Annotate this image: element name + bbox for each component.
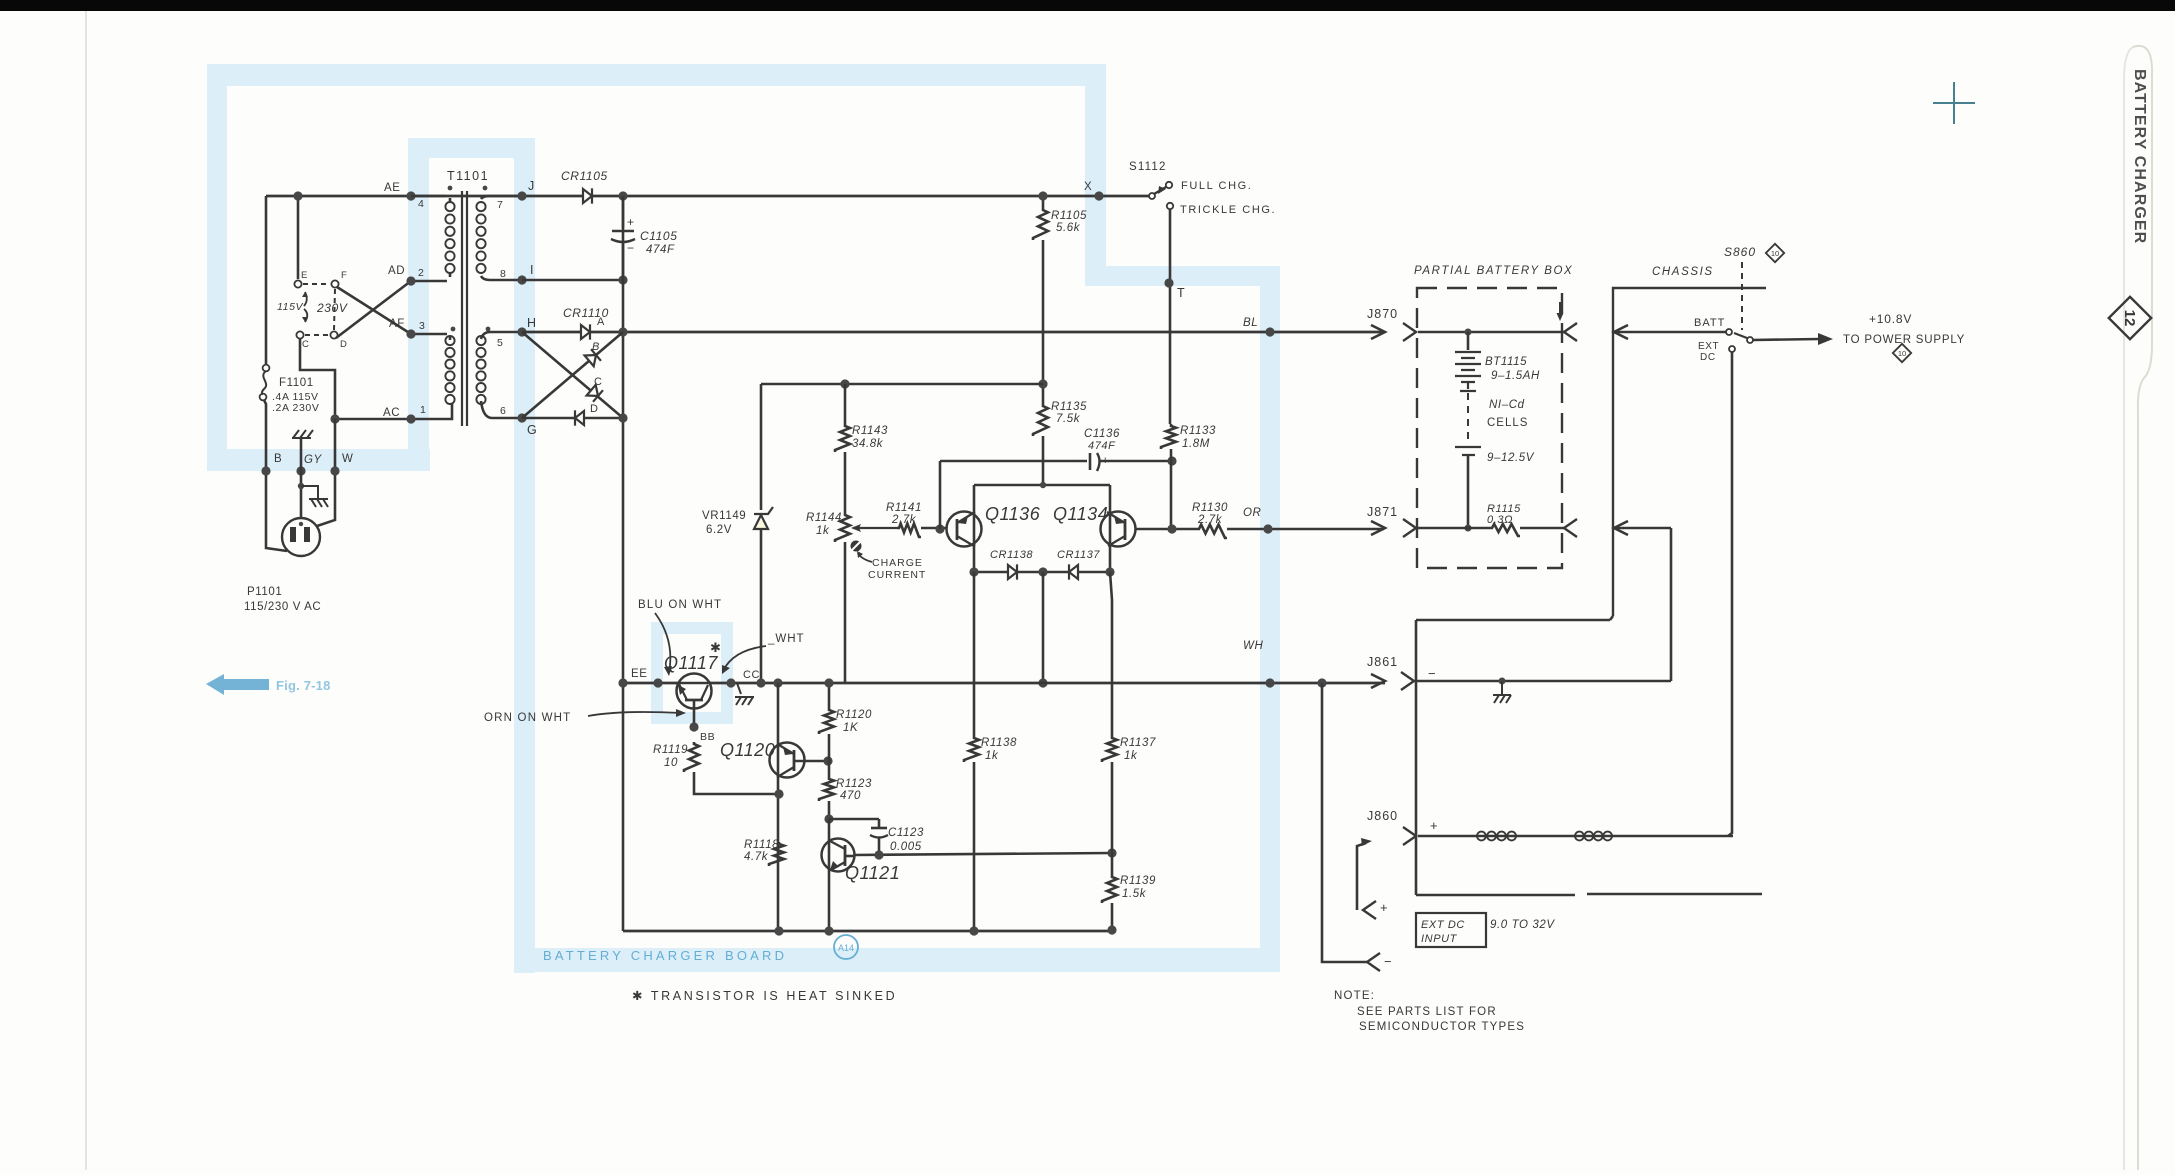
node VR-rail junction xyxy=(756,678,765,687)
battery BT1115 xyxy=(1467,332,1470,350)
transformer primary lower winding 3-1 xyxy=(445,336,454,404)
svg-text:G: G xyxy=(527,423,537,437)
svg-text:10: 10 xyxy=(1898,349,1906,358)
svg-text:T1101: T1101 xyxy=(447,169,489,183)
wire C1136 vertical from base xyxy=(939,461,942,529)
node Q1120 collector rail junction xyxy=(773,678,782,687)
plug P1101 xyxy=(282,518,320,556)
node R1105-R1135 junction xyxy=(1038,379,1047,388)
transistor Q1136 xyxy=(947,512,982,547)
blue highlight band transformer-top xyxy=(408,138,535,158)
node C1136-R1133 junction xyxy=(1167,456,1176,465)
svg-text:+: + xyxy=(1430,818,1438,833)
blue highlight band bottom-left xyxy=(207,449,430,471)
wire AC horizontal xyxy=(335,418,411,421)
wire trickle vertical T xyxy=(1169,209,1172,424)
capacitor C1136 xyxy=(1089,453,1092,470)
svg-text:SEMICONDUCTOR TYPES: SEMICONDUCTOR TYPES xyxy=(1359,1021,1525,1033)
svg-text:Q1120: Q1120 xyxy=(720,740,775,760)
node A junction xyxy=(618,327,627,336)
node ext-dc minus tap xyxy=(1317,678,1326,687)
capacitor C1123 xyxy=(829,819,879,827)
svg-text:J861: J861 xyxy=(1367,655,1398,669)
wire lower chassis run xyxy=(1416,894,1762,895)
transistor Q1134 xyxy=(1101,512,1136,547)
svg-text:R1139: R1139 xyxy=(1120,875,1156,887)
svg-text:B: B xyxy=(274,453,282,465)
blue highlight band left xyxy=(207,64,227,471)
transformer secondary phasing dot lower xyxy=(486,327,491,332)
svg-text:_WHT: _WHT xyxy=(767,633,805,645)
R1144 wiper arrow xyxy=(853,527,897,529)
blue highlight band transformer-left xyxy=(408,138,429,471)
wire W vertical to plug xyxy=(317,419,335,526)
node I xyxy=(517,275,526,284)
svg-text:INPUT: INPUT xyxy=(1421,933,1458,945)
blue highlight band board-left vertical xyxy=(514,138,535,973)
wire bias rail y=384 xyxy=(761,383,1043,386)
node H xyxy=(517,327,526,336)
svg-text:R1133: R1133 xyxy=(1180,425,1216,437)
svg-text:12: 12 xyxy=(2121,310,2138,327)
diode A CR1110 xyxy=(581,325,590,339)
svg-text:R1144: R1144 xyxy=(806,512,842,524)
node EE xyxy=(653,678,662,687)
wire Q1121 collector to R1137 junction xyxy=(854,853,1112,855)
svg-text:4.7k: 4.7k xyxy=(744,851,769,863)
wire J871 inside battery box xyxy=(1418,527,1490,530)
wire AE to winding xyxy=(411,196,450,202)
transformer primary phasing dot upper xyxy=(448,186,453,191)
wire Q1134 emitter-collector vertical xyxy=(1109,485,1112,572)
svg-text:S860: S860 xyxy=(1724,245,1756,259)
svg-text:474F: 474F xyxy=(1088,440,1116,452)
svg-text:1: 1 xyxy=(420,404,426,416)
svg-text:R1137: R1137 xyxy=(1120,737,1156,749)
wire G line xyxy=(522,417,623,420)
wire GY vertical xyxy=(300,438,303,519)
svg-text:✱: ✱ xyxy=(710,640,722,655)
svg-text:R1143: R1143 xyxy=(852,425,888,437)
svg-text:C: C xyxy=(594,376,603,388)
battery dashed middle xyxy=(1467,393,1469,443)
fuse F1101 xyxy=(263,365,270,372)
svg-text:9.0 TO 32V: 9.0 TO 32V xyxy=(1490,919,1555,931)
svg-text:TO POWER SUPPLY: TO POWER SUPPLY xyxy=(1843,334,1965,346)
svg-text:BATTERY CHARGER BOARD: BATTERY CHARGER BOARD xyxy=(543,948,787,963)
wire R1138 vertical xyxy=(973,572,976,736)
node B xyxy=(261,466,270,475)
switch contact C xyxy=(296,331,303,338)
transformer core xyxy=(462,191,467,426)
svg-text:SEE PARTS LIST FOR: SEE PARTS LIST FOR xyxy=(1357,1006,1497,1018)
chassis bracket xyxy=(1613,288,1766,616)
page fold line xyxy=(85,11,87,1170)
svg-text:DC: DC xyxy=(1700,352,1716,363)
svg-text:B: B xyxy=(592,341,600,353)
switch contact D xyxy=(330,331,337,338)
svg-text:J: J xyxy=(528,179,535,193)
svg-text:+10.8V: +10.8V xyxy=(1869,312,1912,326)
terminal 2 / AD wire xyxy=(411,273,450,281)
assembly circle A14 xyxy=(834,935,858,959)
resistor R1139 xyxy=(1111,853,1114,875)
svg-text:BT1115: BT1115 xyxy=(1485,356,1527,368)
label CHARGE CURRENT with arrow xyxy=(858,553,872,562)
svg-text:P1101: P1101 xyxy=(247,586,282,598)
node Q1120 base junction xyxy=(823,756,832,765)
terminal 4 xyxy=(406,191,415,200)
node battery bottom tap xyxy=(1465,525,1472,532)
terminal 5 wire to H xyxy=(481,332,522,339)
switch S860 dashed linkage xyxy=(1741,262,1743,330)
svg-text:10: 10 xyxy=(1771,249,1779,258)
chassis-side arrow to BATT (BL) xyxy=(1614,325,1628,339)
svg-text:9–1.5AH: 9–1.5AH xyxy=(1491,370,1540,382)
svg-text:1.8M: 1.8M xyxy=(1182,438,1210,450)
node OR xyxy=(1263,524,1272,533)
node R1123-C1123 junction xyxy=(824,814,833,823)
wire J861 to riser xyxy=(1416,680,1671,683)
switch S1112 xyxy=(1149,193,1155,199)
svg-text:6: 6 xyxy=(500,405,506,417)
svg-text:−: − xyxy=(627,241,635,255)
transformer primary upper winding 4-2 xyxy=(445,202,454,273)
blue highlight band board-right vertical xyxy=(1260,266,1280,972)
svg-text:J860: J860 xyxy=(1367,809,1398,823)
diode CR1105 on top rail xyxy=(583,189,592,203)
diamond 10 power supply ref xyxy=(1893,344,1911,362)
svg-text:1K: 1K xyxy=(843,722,859,734)
wire left B vertical upper xyxy=(265,196,268,364)
transformer secondary lower winding 5-6 xyxy=(476,336,485,404)
svg-text:R1105: R1105 xyxy=(1051,210,1087,222)
svg-text:VR1149: VR1149 xyxy=(702,510,746,522)
svg-text:R1141: R1141 xyxy=(886,502,922,514)
svg-text:0.005: 0.005 xyxy=(890,841,922,853)
resistor R1120 xyxy=(828,683,831,708)
diode C xyxy=(586,384,603,401)
svg-text:EXT DC: EXT DC xyxy=(1421,919,1465,931)
svg-text:A: A xyxy=(597,316,605,328)
wire diode row to WH rail xyxy=(1042,572,1045,683)
diode D xyxy=(575,411,584,425)
node BB xyxy=(689,722,698,731)
choke L2 on J860 wire xyxy=(1575,832,1612,841)
transistor Q1117 heat-sinked xyxy=(677,674,712,709)
battery box right chevrons xyxy=(1564,323,1577,341)
svg-text:✱ TRANSISTOR IS HEAT SINKED: ✱ TRANSISTOR IS HEAT SINKED xyxy=(632,989,897,1003)
transformer secondary upper winding 7-8 xyxy=(476,202,485,273)
svg-text:CR1137: CR1137 xyxy=(1057,549,1100,561)
capacitor C1105 xyxy=(622,196,625,228)
switch contact F xyxy=(331,280,338,287)
diode B xyxy=(584,349,601,366)
node X xyxy=(1094,191,1103,200)
choke L1 on J860 wire xyxy=(1477,832,1516,841)
tab diamond 12 xyxy=(2109,297,2151,339)
svg-text:J871: J871 xyxy=(1367,505,1398,519)
svg-text:+: + xyxy=(1102,455,1109,467)
svg-text:2.7k: 2.7k xyxy=(891,514,917,526)
svg-text:C1123: C1123 xyxy=(888,827,924,839)
svg-text:+: + xyxy=(627,215,635,229)
wire J860 with chokes xyxy=(1418,835,1733,838)
svg-text:AF: AF xyxy=(389,318,405,330)
svg-text:W: W xyxy=(342,453,353,465)
svg-text:C1105: C1105 xyxy=(640,229,677,243)
diagonal G to A-junction with diode B xyxy=(522,332,623,418)
node collector-R1137 junction xyxy=(1107,848,1116,857)
wire EE-CC-WH rail y=683 xyxy=(623,682,1385,685)
svg-text:C: C xyxy=(302,339,309,350)
svg-text:10: 10 xyxy=(664,757,678,769)
resistor R1118 xyxy=(769,842,784,866)
page top black bar xyxy=(0,0,2175,11)
svg-text:CELLS: CELLS xyxy=(1487,417,1528,429)
svg-text:6.2V: 6.2V xyxy=(706,524,732,536)
svg-text:−: − xyxy=(1428,666,1436,681)
resistor R1119 xyxy=(684,742,699,772)
svg-text:5.6k: 5.6k xyxy=(1056,222,1081,234)
resistor R1105 xyxy=(1042,196,1045,208)
wire left B vertical lower xyxy=(264,400,287,551)
transformer secondary phasing dot upper xyxy=(483,186,488,191)
wire differential box top xyxy=(974,484,1110,487)
node J xyxy=(517,191,526,200)
svg-text:R1118: R1118 xyxy=(744,839,779,851)
svg-text:BB: BB xyxy=(700,731,715,743)
svg-text:I: I xyxy=(530,263,534,277)
svg-text:AE: AE xyxy=(384,182,401,194)
EXT DC INPUT box xyxy=(1416,913,1486,947)
svg-text:NI–Cd: NI–Cd xyxy=(1489,399,1525,411)
svg-text:Q1117: Q1117 xyxy=(664,653,718,673)
charge current indicator xyxy=(851,541,862,552)
svg-text:CHARGE: CHARGE xyxy=(872,557,923,569)
svg-text:Q1136: Q1136 xyxy=(985,504,1041,524)
svg-text:R1123: R1123 xyxy=(836,778,872,790)
svg-text:7.5k: 7.5k xyxy=(1056,413,1081,425)
wire R1137 vertical xyxy=(1110,572,1112,736)
wire S860 output +10.8V xyxy=(1753,339,1820,340)
svg-text:115/230 V AC: 115/230 V AC xyxy=(244,601,321,613)
blue highlight band board-bottom xyxy=(514,948,1280,972)
resistor R1133 xyxy=(1161,424,1176,449)
svg-text:Q1134: Q1134 xyxy=(1053,504,1108,524)
blue highlight band mid horizontal xyxy=(1085,266,1280,286)
node Q1136 base xyxy=(935,524,944,533)
wire H line with diode A xyxy=(522,331,1385,334)
svg-text:TRICKLE CHG.: TRICKLE CHG. xyxy=(1180,204,1276,216)
terminal 8 wire to I xyxy=(481,276,522,280)
svg-text:470: 470 xyxy=(840,790,861,802)
svg-text:S1112: S1112 xyxy=(1129,161,1167,173)
wire E branch vertical xyxy=(297,196,300,279)
wire C1136 horizontal xyxy=(940,460,1172,463)
node I-C1105 junction xyxy=(618,275,627,284)
svg-text:AC: AC xyxy=(383,407,400,419)
wire Q1134 base to R1130 xyxy=(1135,528,1197,531)
svg-text:F1101: F1101 xyxy=(279,377,314,389)
resistor R1143 xyxy=(844,384,847,424)
resistor R1130 xyxy=(1197,525,1227,539)
svg-text:H: H xyxy=(527,316,537,330)
svg-text:3: 3 xyxy=(419,320,425,332)
svg-text:CR1138: CR1138 xyxy=(990,549,1033,561)
resistor R1115 xyxy=(1490,524,1520,536)
svg-text:PARTIAL BATTERY BOX: PARTIAL BATTERY BOX xyxy=(1414,265,1573,277)
svg-text:CR1105: CR1105 xyxy=(561,169,608,183)
svg-text:474F: 474F xyxy=(646,244,675,256)
node WH xyxy=(1265,678,1274,687)
svg-text:R1138: R1138 xyxy=(981,737,1017,749)
node CC with chassis ground xyxy=(726,678,735,687)
chassis ground above GY xyxy=(292,430,313,438)
wire Q1136 emitter-collector vertical xyxy=(973,485,976,572)
transformer primary phasing dot lower xyxy=(451,327,456,332)
svg-text:R1120: R1120 xyxy=(836,709,872,721)
chassis ground at J861 xyxy=(1493,681,1511,703)
switch contact E xyxy=(294,280,301,287)
svg-text:CURRENT: CURRENT xyxy=(868,569,926,581)
wire main left vertical x=623 xyxy=(622,196,625,931)
svg-text:2: 2 xyxy=(418,267,424,279)
node T xyxy=(1164,278,1173,287)
svg-text:−: − xyxy=(1384,954,1392,969)
svg-text:+: + xyxy=(1380,900,1388,915)
wire J861 box left vertical xyxy=(1415,620,1418,895)
node D junction xyxy=(618,413,627,422)
svg-text:NOTE:: NOTE: xyxy=(1334,990,1375,1002)
svg-text:T: T xyxy=(1177,286,1185,300)
dashed link E-F xyxy=(303,283,330,285)
wire F to AF crossing xyxy=(337,287,411,334)
svg-text:Q1121: Q1121 xyxy=(845,863,900,883)
figure reference arrow Fig. 7-18 xyxy=(206,674,269,695)
svg-text:R1135: R1135 xyxy=(1051,401,1087,413)
svg-text:Fig. 7-18: Fig. 7-18 xyxy=(276,678,331,693)
transistor Q1121 xyxy=(822,839,855,872)
resistor R1141 xyxy=(897,524,921,538)
node W xyxy=(330,466,339,475)
svg-text:CHASSIS: CHASSIS xyxy=(1652,266,1714,278)
svg-text:8: 8 xyxy=(500,268,506,280)
svg-text:WH: WH xyxy=(1243,640,1263,652)
svg-text:CC: CC xyxy=(743,669,760,681)
node C1123-collector junction xyxy=(874,850,883,859)
svg-text:D: D xyxy=(340,339,347,350)
svg-text:F: F xyxy=(341,270,347,281)
svg-text:0.3Ω: 0.3Ω xyxy=(1487,514,1513,526)
terminal 1 / AC wire xyxy=(411,404,452,419)
svg-text:C1136: C1136 xyxy=(1084,428,1120,440)
battery lower cell xyxy=(1455,447,1481,455)
svg-text:9–12.5V: 9–12.5V xyxy=(1487,452,1535,464)
svg-text:BL: BL xyxy=(1243,317,1258,329)
svg-text:34.8k: 34.8k xyxy=(852,438,884,450)
svg-text:−: − xyxy=(1078,455,1085,467)
svg-text:1k: 1k xyxy=(985,750,999,762)
svg-text:EE: EE xyxy=(631,668,648,680)
wire J870 inside battery box xyxy=(1418,331,1564,334)
terminal 6 wire to G xyxy=(481,401,522,418)
battery box corner arrow xyxy=(1559,302,1561,314)
svg-text:2.7k: 2.7k xyxy=(1197,514,1223,526)
dashed link C-D xyxy=(305,334,329,336)
svg-text:1k: 1k xyxy=(816,525,830,537)
diode CR1137 xyxy=(1069,565,1078,579)
svg-text:230V: 230V xyxy=(316,301,348,315)
earth ground branch at plug xyxy=(301,486,328,507)
node bias-R1143 junction xyxy=(840,379,849,388)
registration cross xyxy=(1933,82,1975,124)
svg-text:GY: GY xyxy=(304,454,323,466)
terminal 7 wire to J xyxy=(481,196,522,199)
svg-text:J870: J870 xyxy=(1367,307,1398,321)
svg-text:FULL CHG.: FULL CHG. xyxy=(1181,180,1252,192)
wire Q1120 vertical xyxy=(777,683,780,931)
page tab edge right xyxy=(2124,47,2133,1170)
node R1119-Q1120 emitter junction xyxy=(774,789,783,798)
node C1105 tap xyxy=(618,191,627,200)
resistor R1135 xyxy=(1033,404,1048,436)
wire EXT DC vertical xyxy=(1728,352,1732,836)
svg-text:BLU ON WHT: BLU ON WHT xyxy=(638,599,722,611)
svg-text:E: E xyxy=(301,270,308,281)
svg-text:1k: 1k xyxy=(1124,750,1138,762)
svg-text:.2A 230V: .2A 230V xyxy=(272,402,319,414)
svg-text:ORN ON WHT: ORN ON WHT xyxy=(484,712,571,724)
node AC junction xyxy=(330,414,339,423)
svg-text:EXT: EXT xyxy=(1698,341,1719,352)
svg-text:D: D xyxy=(590,403,599,415)
wire top rail AE/J y=196 xyxy=(266,195,1152,198)
potentiometer R1144 xyxy=(835,513,850,542)
svg-text:R1119: R1119 xyxy=(653,744,688,756)
svg-text:BATTERY CHARGER: BATTERY CHARGER xyxy=(2131,69,2148,244)
node BL xyxy=(1265,327,1274,336)
svg-text:4: 4 xyxy=(418,198,424,210)
wire chassis link xyxy=(1416,616,1613,620)
node GY lower tap xyxy=(298,483,304,489)
svg-text:AD: AD xyxy=(388,265,405,277)
diode row wire xyxy=(974,571,1110,574)
svg-text:A14: A14 xyxy=(838,943,854,953)
svg-text:1.5k: 1.5k xyxy=(1122,888,1147,900)
node G xyxy=(517,413,526,422)
wire I horizontal xyxy=(522,279,623,282)
svg-text:OR: OR xyxy=(1243,507,1261,519)
wire C to AC via fuse-side route xyxy=(300,339,335,419)
svg-text:R1130: R1130 xyxy=(1192,502,1228,514)
dashed link F-D gang xyxy=(334,289,335,330)
battery box dashed outline xyxy=(1417,288,1562,568)
diode CR1138 xyxy=(1008,565,1017,579)
svg-text:5: 5 xyxy=(497,337,503,349)
zener VR1149 xyxy=(760,384,763,510)
node GY xyxy=(296,466,305,475)
J860 feed arrow from EXT DC INPUT plus xyxy=(1357,843,1366,910)
blue highlight band top xyxy=(207,64,1104,86)
node J861 ground tap xyxy=(1499,678,1506,685)
wire D to AD crossing xyxy=(336,281,411,338)
terminal 3 / AF wire xyxy=(411,334,450,340)
blue highlight box around Q1117 xyxy=(657,628,727,718)
transistor Q1120 xyxy=(770,743,805,778)
wire EXT DC INPUT minus xyxy=(1322,683,1367,962)
svg-text:7: 7 xyxy=(497,199,503,211)
